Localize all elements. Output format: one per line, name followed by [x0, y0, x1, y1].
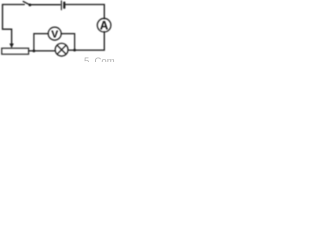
- wire top-left horizontal: [3, 4, 25, 6]
- svg-text:A: A: [100, 19, 109, 32]
- wire rheostat to lamp: [29, 50, 56, 52]
- battery cell long plate: [60, 1, 62, 10]
- wire battery to top-right corner: [66, 5, 105, 19]
- rheostat R1 body: [2, 48, 29, 54]
- lamp L1 cross: [57, 45, 66, 54]
- wire ammeter to bottom-right corner: [68, 32, 104, 50]
- node junction right (voltmeter tap): [73, 49, 76, 52]
- wire switch to battery: [31, 4, 60, 6]
- node junction left (voltmeter tap): [33, 50, 36, 53]
- switch S1 pivot dot: [29, 4, 32, 7]
- switch S1 blade: [23, 1, 29, 4]
- lamp L1 circle: [55, 43, 68, 56]
- svg-text:5. Com: 5. Com: [84, 56, 115, 62]
- voltmeter V1 circle: [48, 27, 61, 40]
- battery cell short thick plate: [63, 3, 65, 8]
- ammeter A1 circle: [97, 18, 111, 32]
- svg-text:V: V: [51, 29, 58, 40]
- wire voltmeter left lead: [34, 34, 48, 51]
- wire voltmeter right lead: [61, 34, 74, 51]
- rheostat R1 slider arrowhead: [9, 44, 13, 49]
- wire left side stepped: [3, 5, 12, 44]
